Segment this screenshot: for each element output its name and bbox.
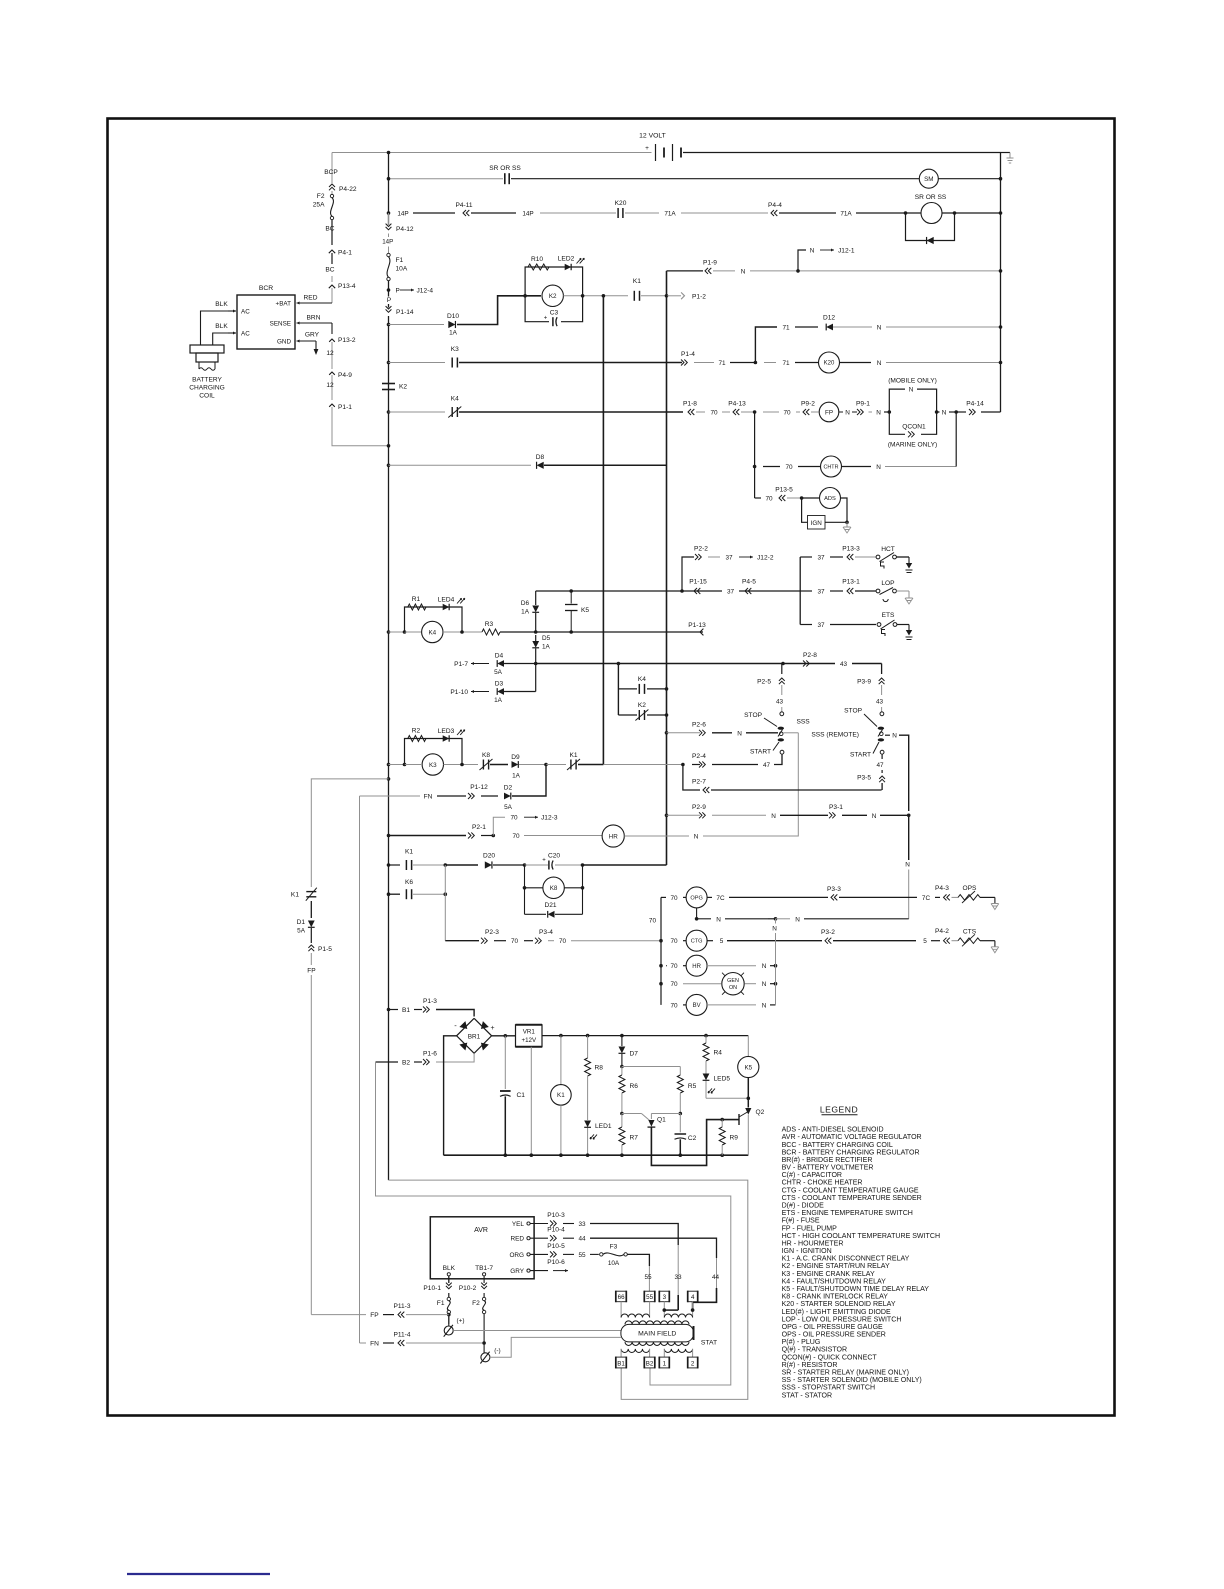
svg-text:55: 55 (646, 1294, 653, 1301)
svg-text:YEL: YEL (512, 1221, 525, 1228)
wire FP row avr (311, 1314, 366, 1316)
svg-text:K4: K4 (638, 676, 646, 683)
svg-text:IGN: IGN (811, 520, 823, 527)
svg-text:D5: D5 (542, 635, 551, 642)
svg-text:P11-4: P11-4 (393, 1332, 410, 1339)
svg-text:CHTR: CHTR (824, 464, 839, 470)
svg-text:N: N (762, 963, 767, 970)
svg-text:R4: R4 (714, 1050, 723, 1057)
relay coil K4 circle (422, 621, 443, 642)
wire LOP row (800, 590, 812, 592)
wire B1 long loop (389, 1180, 748, 1399)
resistor R8 (587, 1036, 589, 1058)
wire to P2-3 row (444, 865, 446, 941)
wire N vertical gauges (775, 919, 777, 924)
svg-text:43: 43 (876, 699, 884, 706)
stator terminal 3 (659, 1291, 669, 1302)
svg-text:70: 70 (670, 963, 678, 970)
svg-text:QCON1: QCON1 (902, 424, 926, 431)
svg-text:J12-4: J12-4 (417, 288, 434, 295)
svg-text:ORG: ORG (509, 1252, 524, 1259)
hourmeter HR (602, 825, 624, 847)
svg-text:SR - STARTER RELAY (MARINE ONL: SR - STARTER RELAY (MARINE ONLY) (782, 1369, 909, 1376)
svg-text:N: N (716, 916, 721, 923)
svg-text:GRY: GRY (305, 332, 320, 339)
wire terminal 4 down (692, 1302, 694, 1318)
svg-text:37: 37 (725, 555, 733, 562)
svg-text:14P: 14P (397, 210, 408, 217)
svg-text:SR OR SS: SR OR SS (489, 165, 521, 172)
wire OPG row (661, 896, 666, 898)
svg-text:4: 4 (691, 1294, 695, 1301)
wire 70 vertical left of gauges (696, 883, 698, 887)
svg-text:CTG - COOLANT TEMPERATURE GAUG: CTG - COOLANT TEMPERATURE GAUGE (782, 1187, 919, 1194)
svg-text:K5: K5 (744, 1064, 752, 1071)
svg-text:N: N (772, 926, 777, 933)
wire P2-8 row y663.5 (536, 663, 835, 665)
svg-text:+BAT: +BAT (276, 300, 292, 307)
svg-text:P: P (387, 297, 391, 304)
svg-text:OPG - OIL PRESSURE GAUGE: OPG - OIL PRESSURE GAUGE (782, 1324, 883, 1331)
wire 33 tie (664, 1309, 678, 1311)
svg-text:P4-9: P4-9 (338, 372, 352, 379)
svg-text:K20: K20 (615, 200, 627, 207)
svg-text:P4-12: P4-12 (396, 226, 414, 233)
svg-text:QCON(#) - QUICK CONNECT: QCON(#) - QUICK CONNECT (782, 1354, 878, 1361)
svg-text:N: N (845, 410, 850, 417)
svg-text:P10-6: P10-6 (547, 1259, 565, 1266)
svg-text:K2 - ENGINE START/RUN RELAY: K2 - ENGINE START/RUN RELAY (782, 1263, 890, 1270)
svg-text:J12-2: J12-2 (757, 555, 774, 562)
stator terminal B2 (644, 1357, 655, 1368)
svg-text:C3: C3 (550, 310, 559, 317)
wire FN D2 row (360, 795, 421, 797)
svg-text:P3-5: P3-5 (857, 775, 871, 782)
wire K3 contact row (387, 361, 391, 365)
svg-text:ETS: ETS (882, 612, 895, 619)
svg-text:N: N (872, 813, 877, 820)
svg-text:VR1: VR1 (523, 1028, 536, 1035)
svg-text:71: 71 (718, 360, 726, 367)
loop R10 LED2 top (525, 267, 583, 296)
wire OPG N row (696, 908, 698, 919)
svg-text:N: N (694, 834, 699, 841)
svg-text:(MOBILE ONLY): (MOBILE ONLY) (888, 378, 937, 385)
svg-text:+: + (645, 145, 649, 152)
svg-text:55: 55 (644, 1274, 652, 1281)
wire Q2 base bar (738, 1114, 740, 1125)
wire P2-7 row (683, 765, 700, 791)
svg-text:D1: D1 (297, 919, 306, 926)
wire GEN ON row (659, 982, 663, 986)
svg-text:P4-2: P4-2 (935, 928, 949, 935)
svg-text:SSS (REMOTE): SSS (REMOTE) (811, 731, 859, 738)
svg-text:LED5: LED5 (714, 1075, 731, 1082)
wire bus down to 894 (388, 465, 390, 894)
svg-text:5: 5 (720, 938, 724, 945)
wire P2-4 row (681, 763, 685, 767)
svg-text:7C: 7C (922, 895, 931, 902)
svg-text:+12V: +12V (521, 1037, 536, 1044)
svg-text:P1-10: P1-10 (450, 689, 468, 696)
svg-text:K1: K1 (291, 892, 299, 899)
svg-text:N: N (905, 862, 910, 869)
svg-text:14P: 14P (382, 239, 393, 246)
svg-text:C20: C20 (548, 853, 560, 860)
svg-text:D(#) - DIODE: D(#) - DIODE (782, 1203, 825, 1210)
svg-text:70: 70 (670, 938, 678, 945)
wire ADS right down (841, 498, 848, 522)
svg-text:B2: B2 (646, 1360, 654, 1367)
svg-text:70: 70 (670, 1002, 678, 1009)
resistor R9 (720, 1118, 724, 1122)
voltmeter BV (686, 994, 707, 1015)
svg-text:55: 55 (578, 1252, 586, 1259)
svg-text:D6: D6 (521, 600, 530, 607)
svg-text:1A: 1A (449, 330, 458, 337)
svg-text:70: 70 (649, 918, 657, 925)
svg-text:B1: B1 (402, 1007, 410, 1014)
svg-text:P13-2: P13-2 (338, 337, 356, 344)
svg-text:70: 70 (710, 410, 718, 417)
wire P1-9 N row (667, 270, 704, 272)
wire tall vertical X2 (666, 271, 668, 865)
svg-text:RED: RED (304, 295, 318, 302)
plug P1-14 (388, 304, 390, 308)
svg-text:K8 - CRANK INTERLOCK RELAY: K8 - CRANK INTERLOCK RELAY (782, 1294, 889, 1301)
svg-text:P2-6: P2-6 (692, 721, 706, 728)
svg-text:K2: K2 (549, 293, 557, 300)
svg-text:1A: 1A (494, 697, 503, 704)
relay coil K1 bottom (560, 1036, 562, 1085)
svg-text:HR: HR (609, 833, 619, 840)
wire main left bus upper (388, 153, 390, 226)
ground HCT (908, 557, 910, 563)
svg-text:+: + (544, 316, 548, 322)
wire HCT row (800, 556, 812, 558)
label P J12-4 (387, 288, 391, 292)
wire B2 long loop (376, 1062, 731, 1385)
svg-text:R6: R6 (630, 1083, 639, 1090)
svg-text:ADS - ANTI-DIESEL SOLENOID: ADS - ANTI-DIESEL SOLENOID (782, 1127, 884, 1134)
wire tall vertical X1 (602, 296, 604, 765)
svg-text:D21: D21 (544, 902, 556, 909)
switch SSS remote (880, 712, 884, 716)
wire long row y591 (536, 590, 722, 592)
svg-text:BV - BATTERY VOLTMETER: BV - BATTERY VOLTMETER (782, 1165, 874, 1172)
svg-text:N: N (741, 268, 746, 275)
svg-text:71: 71 (782, 325, 790, 332)
svg-text:12: 12 (326, 350, 334, 357)
svg-text:D8: D8 (536, 454, 545, 461)
wire ETS row (800, 624, 812, 626)
solenoid ADS coil (820, 488, 841, 509)
svg-text:(+): (+) (457, 1318, 465, 1325)
svg-text:IGN - IGNITION: IGN - IGNITION (782, 1248, 832, 1255)
svg-text:HR: HR (692, 964, 701, 970)
svg-text:K3: K3 (451, 346, 459, 353)
wire brush+ to main field (453, 1330, 621, 1332)
svg-text:J12-1: J12-1 (838, 248, 855, 255)
svg-text:7C: 7C (716, 895, 725, 902)
border frame (108, 119, 1115, 1416)
svg-text:K4 - FAULT/SHUTDOWN RELAY: K4 - FAULT/SHUTDOWN RELAY (782, 1278, 887, 1285)
diode D7 (621, 1036, 623, 1046)
svg-text:K2: K2 (399, 384, 407, 391)
svg-text:P10-3: P10-3 (547, 1212, 565, 1219)
wire terminal 55 down (649, 1302, 651, 1318)
wire P2-1 HR row (387, 834, 391, 838)
wire LED5 to K5 bottom (706, 1097, 748, 1099)
svg-text:37: 37 (727, 589, 735, 596)
svg-text:LOP: LOP (881, 580, 895, 587)
svg-text:R10: R10 (531, 256, 543, 263)
bridge rectifier BR1 (457, 1018, 492, 1053)
motor SM (919, 169, 938, 188)
svg-text:Q2: Q2 (756, 1109, 765, 1116)
svg-text:N: N (942, 410, 947, 417)
regulator AVR box (430, 1217, 534, 1279)
riser J12-3 (493, 817, 505, 835)
svg-text:F1: F1 (437, 1300, 445, 1307)
plug P1-1 (329, 404, 335, 407)
svg-text:FN: FN (370, 1341, 379, 1348)
svg-text:66: 66 (618, 1294, 625, 1301)
wire sense to bus (332, 407, 389, 446)
svg-text:+: + (490, 1025, 494, 1032)
svg-text:P13-3: P13-3 (842, 546, 860, 553)
wire HR2 row (659, 964, 663, 968)
wire bridge minus to rail (444, 1036, 457, 1155)
svg-text:P1-14: P1-14 (396, 309, 414, 316)
svg-text:BRN: BRN (307, 315, 321, 322)
wire terminal 66 down (620, 1302, 622, 1318)
svg-text:14P: 14P (522, 210, 533, 217)
plug P4-12 (388, 213, 390, 225)
svg-text:N: N (877, 325, 882, 332)
ground top right (1001, 152, 1011, 154)
svg-text:P1-6: P1-6 (423, 1051, 437, 1058)
svg-text:P2-4: P2-4 (692, 753, 706, 760)
ground CTS (994, 941, 996, 947)
svg-text:K20: K20 (824, 361, 835, 367)
box IGN (802, 498, 808, 522)
svg-text:70: 70 (670, 895, 678, 902)
svg-text:FP: FP (307, 968, 316, 975)
svg-text:BCC - BATTERY CHARGING COIL: BCC - BATTERY CHARGING COIL (782, 1142, 893, 1149)
svg-text:P: P (396, 288, 400, 295)
plug P13-2 (329, 339, 335, 342)
svg-text:BCP: BCP (324, 169, 338, 176)
svg-text:5A: 5A (504, 804, 513, 811)
hourmeter HR 2 (686, 955, 707, 976)
loop R1 LED4 (405, 607, 463, 632)
stator coils top row B (664, 1314, 692, 1318)
svg-text:F3: F3 (610, 1244, 618, 1251)
svg-text:P4-4: P4-4 (768, 202, 782, 209)
wire Q1 emitter to Q2 base (651, 1120, 739, 1166)
svg-text:LED4: LED4 (438, 597, 455, 604)
svg-text:P2-7: P2-7 (692, 779, 706, 786)
stator terminal B1 (616, 1357, 627, 1368)
svg-text:C(#) - CAPACITOR: C(#) - CAPACITOR (782, 1172, 842, 1179)
svg-text:43: 43 (840, 661, 848, 668)
svg-text:P10-5: P10-5 (547, 1243, 565, 1250)
svg-text:P1-9: P1-9 (703, 260, 717, 267)
svg-text:AVR - AUTOMATIC VOLTAGE REGULA: AVR - AUTOMATIC VOLTAGE REGULATOR (782, 1134, 922, 1141)
wire P2-2 J12-2 row (682, 557, 694, 591)
riser P3-5 47 (881, 754, 883, 759)
svg-text:K20 - STARTER SOLENOID RELAY: K20 - STARTER SOLENOID RELAY (782, 1301, 896, 1308)
svg-text:K8: K8 (482, 752, 490, 759)
svg-text:44: 44 (712, 1274, 720, 1281)
wire FN tall vertical (359, 796, 361, 1343)
svg-text:F1: F1 (396, 257, 404, 264)
switch SSS local (780, 712, 784, 716)
svg-text:CTG: CTG (691, 939, 703, 945)
heater CHTR coil (821, 456, 842, 477)
svg-text:70: 70 (510, 815, 518, 822)
riser P3-9 SSS remote (881, 664, 883, 675)
svg-text:10A: 10A (396, 266, 408, 273)
svg-text:(MARINE ONLY): (MARINE ONLY) (888, 441, 937, 448)
svg-text:25A: 25A (313, 202, 325, 209)
svg-text:12 VOLT: 12 VOLT (639, 133, 666, 140)
svg-text:P9-1: P9-1 (856, 401, 870, 408)
svg-text:5A: 5A (494, 669, 503, 676)
svg-text:43: 43 (776, 699, 784, 706)
svg-text:P13-5: P13-5 (775, 487, 793, 494)
main field box (621, 1324, 694, 1342)
plug P1-5 (308, 945, 314, 951)
pump FP coil (819, 402, 839, 422)
svg-text:FP: FP (370, 1312, 379, 1319)
svg-text:P4-22: P4-22 (339, 186, 357, 193)
svg-text:K5: K5 (581, 607, 589, 614)
wire B2 terminal up (649, 1349, 651, 1357)
svg-text:BLK: BLK (215, 301, 228, 308)
svg-text:K2: K2 (638, 702, 646, 709)
svg-text:33: 33 (578, 1221, 586, 1228)
svg-text:CTS - COOLANT TEMPERATURE SEND: CTS - COOLANT TEMPERATURE SENDER (782, 1195, 922, 1202)
wire 55 to stator (627, 1254, 649, 1266)
svg-text:5: 5 (923, 938, 927, 945)
relay coil K8 circle (525, 887, 544, 889)
wire K20 71A row (387, 211, 391, 215)
svg-text:STAT: STAT (701, 1339, 717, 1346)
wire BCP drop (331, 153, 333, 184)
wire P2-9 P3-1 row (665, 814, 669, 818)
wire bus 324-445 (388, 316, 390, 465)
svg-text:ETS - ENGINE TEMPERATURE SWITC: ETS - ENGINE TEMPERATURE SWITCH (782, 1210, 913, 1217)
battery charging coil symbol (190, 345, 224, 353)
svg-text:F(#) - FUSE: F(#) - FUSE (782, 1218, 820, 1225)
svg-text:R3: R3 (485, 621, 494, 628)
plug arrow P1-2 (667, 295, 682, 297)
svg-text:(-): (-) (494, 1347, 500, 1354)
svg-text:BC: BC (325, 267, 334, 274)
wire FN row avr (360, 1342, 367, 1344)
wire K3coil row y764.5 (387, 763, 391, 767)
svg-text:P13-4: P13-4 (338, 283, 356, 290)
svg-text:ADS: ADS (824, 496, 836, 502)
svg-text:37: 37 (817, 589, 825, 596)
svg-text:P9-2: P9-2 (801, 401, 815, 408)
svg-text:AC: AC (241, 308, 250, 315)
wire SM row (389, 178, 504, 180)
svg-text:BLK: BLK (443, 1265, 456, 1272)
svg-text:CHTR - CHOKE HEATER: CHTR - CHOKE HEATER (782, 1180, 863, 1187)
ground ADS (846, 522, 848, 527)
regulator BCR box (237, 295, 295, 349)
svg-text:N: N (737, 730, 742, 737)
svg-text:D2: D2 (504, 785, 513, 792)
svg-text:F2: F2 (472, 1300, 480, 1307)
plug P13-4 (329, 285, 335, 288)
svg-text:47: 47 (763, 762, 771, 769)
wire HCT LOP ETS vertical (799, 557, 801, 625)
svg-text:START: START (850, 752, 871, 759)
svg-text:P1-5: P1-5 (318, 946, 332, 953)
wire FP corner row (387, 777, 391, 781)
svg-text:HR - HOURMETER: HR - HOURMETER (782, 1240, 844, 1247)
wire SSS pole out (783, 732, 798, 734)
svg-text:GEN: GEN (727, 978, 739, 984)
stator terminal 1 (659, 1357, 669, 1368)
svg-text:1A: 1A (521, 609, 530, 616)
wire K4 NC row (387, 410, 391, 414)
svg-text:BR1: BR1 (468, 1033, 481, 1040)
svg-text:P1-1: P1-1 (338, 404, 352, 411)
svg-text:1A: 1A (512, 773, 521, 780)
svg-text:P(#) - PLUG: P(#) - PLUG (782, 1339, 821, 1346)
svg-text:12: 12 (326, 382, 334, 389)
svg-text:D12: D12 (823, 315, 835, 322)
wire K6 row (387, 892, 391, 896)
svg-text:CHARGING: CHARGING (189, 385, 225, 392)
svg-text:P2-9: P2-9 (692, 804, 706, 811)
svg-text:K1 - A.C. CRANK DISCONNECT REL: K1 - A.C. CRANK DISCONNECT RELAY (782, 1256, 910, 1263)
svg-text:N: N (795, 916, 800, 923)
transistor Q1 (622, 1113, 642, 1115)
wire D10 row (387, 323, 391, 327)
wire top battery row (332, 152, 652, 154)
svg-text:SS - STARTER SOLENOID (MOBILE: SS - STARTER SOLENOID (MOBILE ONLY) (782, 1377, 922, 1384)
relay coil K3 circle (422, 754, 443, 775)
svg-text:BCR: BCR (259, 285, 273, 292)
svg-text:LED2: LED2 (558, 256, 575, 263)
plug P4-1 (329, 250, 335, 253)
svg-text:N: N (892, 733, 897, 740)
svg-text:Q(#) - TRANSISTOR: Q(#) - TRANSISTOR (782, 1347, 848, 1354)
svg-text:LOP - LOW OIL PRESSURE SWITCH: LOP - LOW OIL PRESSURE SWITCH (782, 1316, 902, 1323)
svg-text:70: 70 (670, 981, 678, 988)
svg-text:N: N (762, 981, 767, 988)
svg-text:F2: F2 (317, 193, 325, 200)
svg-text:P2-1: P2-1 (472, 824, 486, 831)
svg-text:LEGEND: LEGEND (820, 1105, 858, 1115)
svg-text:SR OR SS: SR OR SS (915, 194, 947, 201)
svg-text:P3-2: P3-2 (821, 929, 835, 936)
svg-text:P1-4: P1-4 (681, 351, 695, 358)
svg-text:P1-12: P1-12 (470, 784, 488, 791)
svg-text:RED: RED (511, 1236, 525, 1243)
plug P4-22 (329, 184, 335, 190)
svg-text:SSS - STOP/START SWITCH: SSS - STOP/START SWITCH (782, 1385, 875, 1392)
svg-text:R7: R7 (630, 1135, 639, 1142)
svg-text:P13-1: P13-1 (842, 579, 860, 586)
wire HR to N (624, 835, 689, 837)
